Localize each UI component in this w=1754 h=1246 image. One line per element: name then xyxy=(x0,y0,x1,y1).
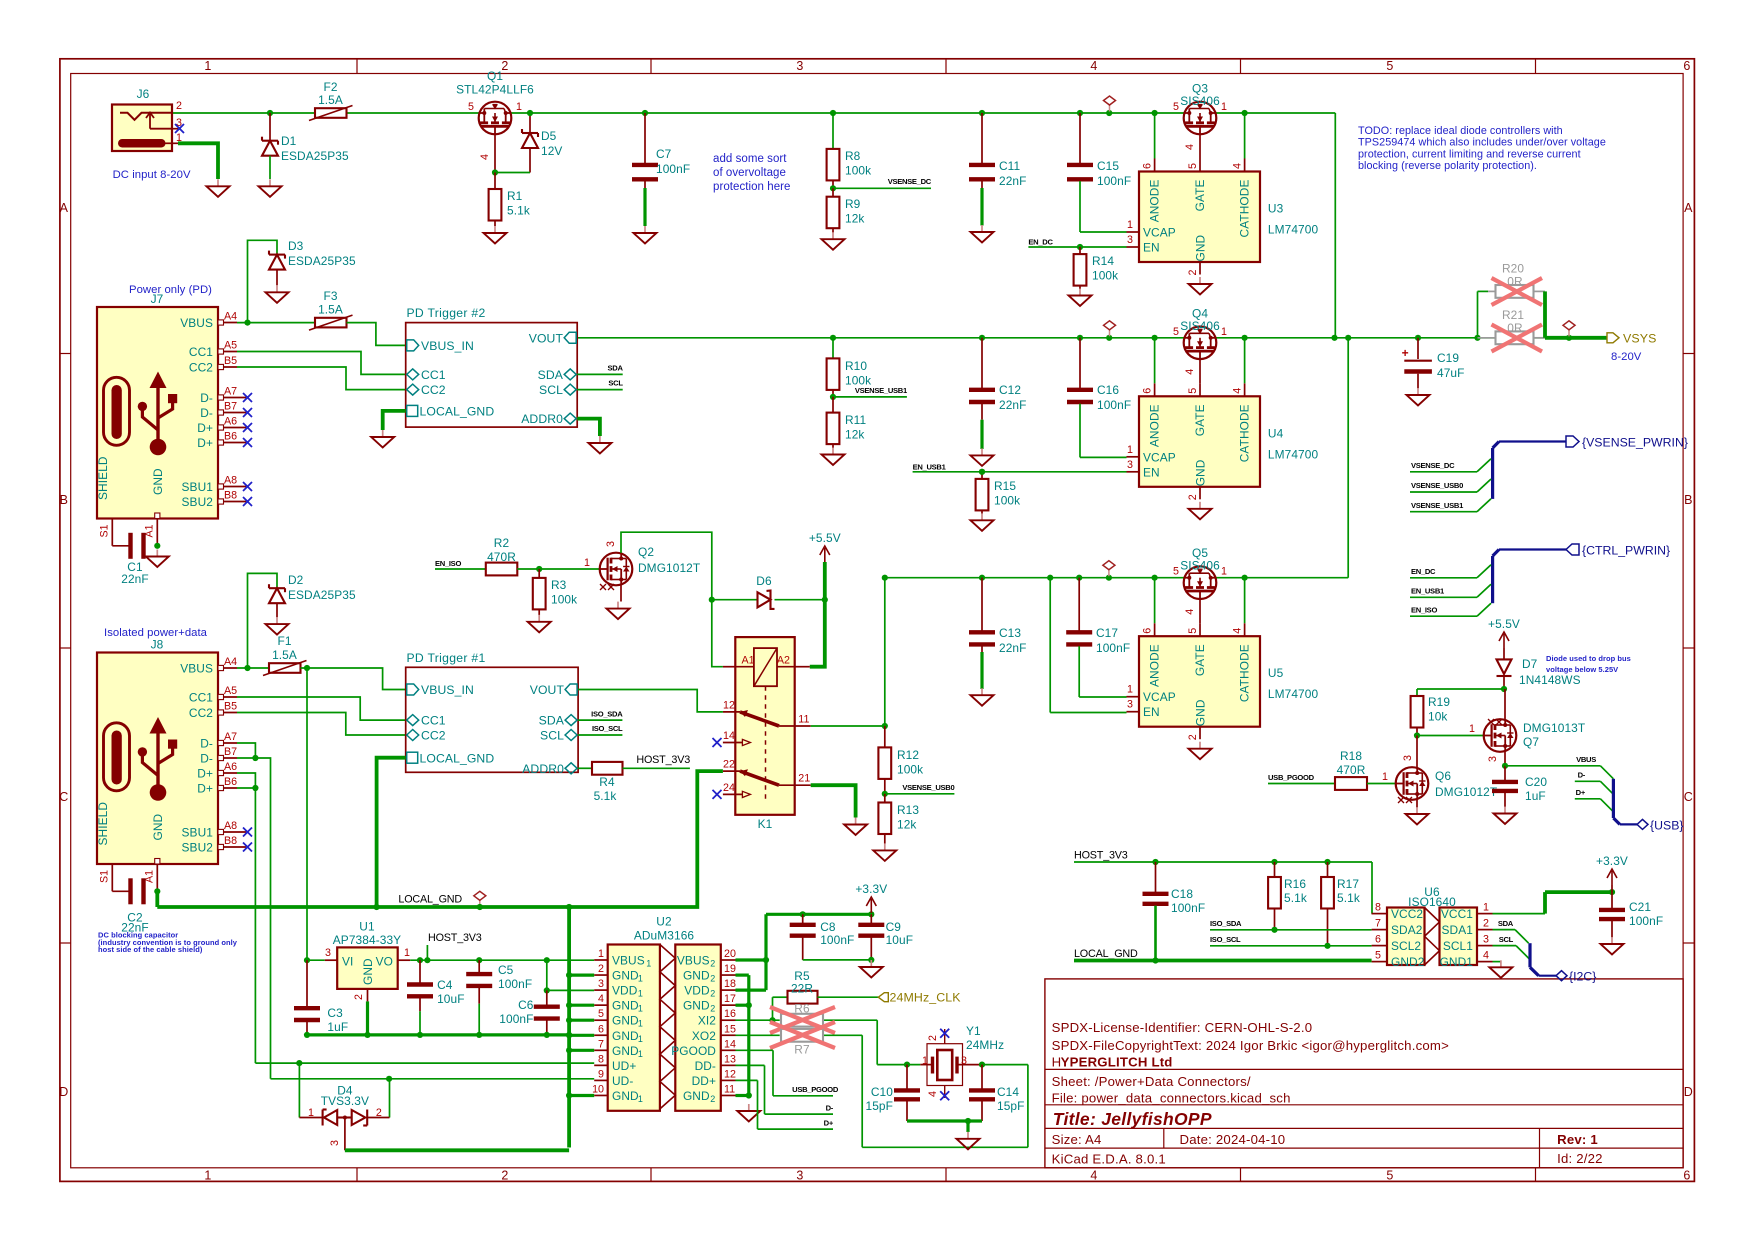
wire Y1 gnd stub xyxy=(966,1121,969,1132)
svg-text:2: 2 xyxy=(710,989,715,999)
svg-text:LOCAL_GND: LOCAL_GND xyxy=(1074,948,1138,960)
svg-text:470R: 470R xyxy=(487,550,516,564)
bus entry VSENSE_USB1 xyxy=(1477,499,1491,512)
svg-text:5: 5 xyxy=(1375,950,1381,962)
junction D4 pin2 xyxy=(386,1076,392,1082)
svg-text:6: 6 xyxy=(1683,59,1690,73)
svg-text:D1: D1 xyxy=(281,134,297,148)
svg-text:D-: D- xyxy=(200,406,213,420)
wire XI2 xyxy=(736,1020,921,1064)
svg-text:LOCAL_GND: LOCAL_GND xyxy=(420,751,495,765)
ground C19 xyxy=(1407,388,1430,406)
junction U4 ANODE xyxy=(1152,335,1158,341)
svg-text:D2: D2 xyxy=(288,573,304,587)
junction GND1 pin2 xyxy=(566,972,572,978)
resistor R10 100k xyxy=(827,338,872,397)
resistor R8 100k xyxy=(827,113,872,188)
net flag diamond LOCAL_GND xyxy=(479,900,481,907)
svg-text:21: 21 xyxy=(798,773,810,785)
svg-text:J6: J6 xyxy=(137,87,150,101)
svg-text:PD Trigger #2: PD Trigger #2 xyxy=(407,306,486,320)
svg-text:UD+: UD+ xyxy=(612,1059,636,1073)
junction R5 bottom xyxy=(769,1017,775,1023)
capacitor C21 100nF xyxy=(1599,892,1663,937)
wire Q7 drain xyxy=(1504,689,1506,719)
wire K1 pin11 xyxy=(811,578,885,726)
svg-text:C16: C16 xyxy=(1097,383,1119,397)
svg-text:DD-: DD- xyxy=(695,1059,716,1073)
connector J8 USB-C xyxy=(96,638,252,892)
resistor R12 100k xyxy=(878,726,923,794)
wire U2 GND1 pin4 xyxy=(569,1004,594,1007)
svg-text:10: 10 xyxy=(592,1083,604,1095)
wire PD1 LOCAL_GND xyxy=(377,758,406,907)
svg-text:R16: R16 xyxy=(1284,877,1306,891)
svg-text:6: 6 xyxy=(1142,163,1154,169)
label HOST_3V3 rail xyxy=(1074,850,1372,914)
svg-text:KiCad E.D.A. 8.0.1: KiCad E.D.A. 8.0.1 xyxy=(1052,1152,1166,1167)
ground U4 GND xyxy=(1189,502,1212,520)
svg-text:15pF: 15pF xyxy=(865,1099,893,1113)
wire U2 GND1 pin6 xyxy=(569,1034,594,1037)
junction R14 top xyxy=(1077,244,1083,250)
wire U1 GND down xyxy=(366,1001,369,1035)
ground J6 xyxy=(207,179,230,197)
wire F1 down to U1 VI xyxy=(306,668,308,960)
wire +5.5V to K1 A2 xyxy=(810,600,825,667)
svg-text:D-: D- xyxy=(200,737,213,751)
svg-text:2: 2 xyxy=(927,1035,939,1041)
svg-text:1: 1 xyxy=(1127,444,1133,456)
capacitor C3 1uF xyxy=(294,960,348,1035)
svg-text:VBUS: VBUS xyxy=(677,954,710,968)
junction LOCAL_GND x569 xyxy=(566,904,572,910)
svg-text:EN: EN xyxy=(1143,465,1160,479)
svg-text:VI: VI xyxy=(342,955,353,969)
ground C13 xyxy=(971,688,994,706)
svg-text:1: 1 xyxy=(1127,684,1133,696)
junction VSYS xyxy=(1566,335,1572,341)
svg-text:C13: C13 xyxy=(999,626,1021,640)
svg-text:4: 4 xyxy=(927,1091,939,1097)
svg-text:Size: A4: Size: A4 xyxy=(1052,1132,1102,1147)
junction row1 D1 xyxy=(267,110,273,116)
diode D2 ESDA25P35 xyxy=(248,573,356,668)
transistor Q7 DMG1013T xyxy=(1484,719,1586,762)
svg-text:6: 6 xyxy=(1683,1169,1690,1183)
svg-text:VCAP: VCAP xyxy=(1143,226,1176,240)
wire R20 output xyxy=(1543,291,1547,337)
resistor R21 0R DNP xyxy=(1478,308,1546,344)
svg-text:A7: A7 xyxy=(224,386,237,398)
svg-text:SDA: SDA xyxy=(608,364,624,373)
capacitor C17 100nF xyxy=(1066,578,1130,697)
bus entry EN_DC xyxy=(1477,565,1491,578)
junction C12 xyxy=(979,335,985,341)
label D+ stub xyxy=(1575,788,1601,799)
wire C8 C9 gnd xyxy=(803,959,872,961)
svg-text:5: 5 xyxy=(1386,1169,1393,1183)
junction U3 ANODE xyxy=(1152,110,1158,116)
svg-text:U4: U4 xyxy=(1268,426,1284,440)
svg-text:100nF: 100nF xyxy=(499,1012,533,1026)
junction Y1 pin1 xyxy=(904,1062,910,1068)
text TODO note xyxy=(1358,125,1606,172)
svg-text:B: B xyxy=(1684,493,1693,507)
label EN_DC xyxy=(1028,238,1126,248)
svg-text:47uF: 47uF xyxy=(1437,366,1465,380)
capacitor C4 10uF xyxy=(407,960,465,1035)
svg-text:VCAP: VCAP xyxy=(1143,690,1176,704)
svg-text:Id: 2/22: Id: 2/22 xyxy=(1557,1151,1603,1166)
label SCL U6 xyxy=(1493,935,1517,946)
capacitor C14 15pF xyxy=(969,1065,1025,1121)
junction row2 x1334 xyxy=(1331,335,1337,341)
wire PD2 ADDR0 to ground xyxy=(577,419,600,436)
svg-text:9: 9 xyxy=(598,1068,604,1080)
svg-text:GND: GND xyxy=(1194,234,1208,261)
ground R14 xyxy=(1069,289,1092,307)
junction D- xyxy=(252,755,258,761)
svg-text:SDA: SDA xyxy=(538,368,564,382)
capacitor C7 100nF xyxy=(632,113,690,226)
junction LOCAL_GND x376 xyxy=(374,904,380,910)
svg-text:HOST_3V3: HOST_3V3 xyxy=(428,932,482,944)
svg-text:4: 4 xyxy=(1184,369,1196,375)
svg-text:VSENSE_DC: VSENSE_DC xyxy=(888,177,932,186)
svg-text:F2: F2 xyxy=(323,80,337,94)
power +5.5V D7 xyxy=(1488,617,1520,648)
bus entry VSENSE_DC xyxy=(1477,459,1491,472)
no-connect Y1 pin4 xyxy=(940,1091,949,1100)
svg-text:100nF: 100nF xyxy=(1097,174,1131,188)
svg-text:Date: 2024-04-10: Date: 2024-04-10 xyxy=(1180,1132,1286,1147)
svg-text:100nF: 100nF xyxy=(1097,398,1131,412)
wire PD2 LOCAL_GND to ground xyxy=(383,411,406,430)
DNP cross R20 xyxy=(1492,278,1543,305)
svg-text:SBU2: SBU2 xyxy=(182,841,214,855)
global label VSYS xyxy=(1607,331,1656,363)
fuse F2 1.5A xyxy=(309,80,353,121)
svg-text:EN: EN xyxy=(1143,705,1160,719)
svg-text:LOCAL_GND: LOCAL_GND xyxy=(420,405,495,419)
hierarchical label I2C xyxy=(1556,970,1596,984)
svg-text:1.5A: 1.5A xyxy=(318,303,343,317)
hierarchical label VSENSE_PWRIN xyxy=(1566,436,1688,450)
svg-text:15pF: 15pF xyxy=(997,1099,1025,1113)
svg-text:24MHz_CLK: 24MHz_CLK xyxy=(890,991,962,1005)
svg-text:Power only (PD): Power only (PD) xyxy=(129,284,212,296)
svg-text:2: 2 xyxy=(710,974,715,984)
wire U3 ANODE xyxy=(1154,113,1156,159)
junction rail C3 xyxy=(304,1032,310,1038)
svg-text:ADDR0: ADDR0 xyxy=(522,762,564,776)
svg-text:GND: GND xyxy=(151,813,165,840)
svg-text:GND: GND xyxy=(361,958,375,985)
svg-text:C20: C20 xyxy=(1525,775,1547,789)
junction R3 top xyxy=(536,566,542,572)
svg-text:D+: D+ xyxy=(197,782,213,796)
wire VSYS xyxy=(1545,336,1607,340)
svg-text:1: 1 xyxy=(1469,723,1475,735)
wire GND1 vertical xyxy=(567,907,571,1148)
svg-text:VCC1: VCC1 xyxy=(1441,907,1473,921)
svg-text:1: 1 xyxy=(1221,101,1227,113)
net flag diamond row1 xyxy=(1109,105,1111,112)
svg-text:Q7: Q7 xyxy=(1523,735,1539,749)
svg-text:SCL: SCL xyxy=(608,379,623,388)
svg-text:18: 18 xyxy=(724,978,736,990)
svg-text:blocking (reverse polarity pro: blocking (reverse polarity protection). xyxy=(1358,160,1537,172)
svg-text:YPERGLITCH Ltd: YPERGLITCH Ltd xyxy=(1061,1055,1173,1070)
svg-text:K1: K1 xyxy=(758,817,773,831)
svg-text:GND: GND xyxy=(612,1089,639,1103)
wire Q7 source xyxy=(1504,752,1506,766)
sheet PD Trigger #1 xyxy=(406,651,578,776)
DNP cross R6 xyxy=(770,1007,835,1033)
wire D7 to R19 xyxy=(1417,689,1504,696)
resistor R18 470R xyxy=(1335,749,1396,790)
svg-text:C9: C9 xyxy=(886,920,902,934)
wire GND rail U1 xyxy=(307,1033,569,1036)
svg-text:5: 5 xyxy=(598,1008,604,1020)
svg-text:SCL: SCL xyxy=(540,729,564,743)
junction VSENSE_USB0 xyxy=(882,791,888,797)
power +5.5V K1 xyxy=(809,531,841,600)
svg-text:DC input 8-20V: DC input 8-20V xyxy=(113,169,191,181)
sheet PD Trigger #2 xyxy=(406,306,578,427)
svg-text:1: 1 xyxy=(638,1094,643,1104)
svg-text:S1: S1 xyxy=(99,870,111,883)
junction ISO_SDA R16 xyxy=(1271,927,1277,933)
svg-text:1: 1 xyxy=(1221,326,1227,338)
svg-text:A7: A7 xyxy=(224,731,237,743)
svg-text:VSENSE_USB1: VSENSE_USB1 xyxy=(1411,501,1464,510)
label ISO_SDA U6 xyxy=(1210,919,1372,930)
svg-text:D-: D- xyxy=(200,391,213,405)
svg-text:VSENSE_USB0: VSENSE_USB0 xyxy=(1411,481,1463,490)
wire VBUS_USB0 row3 xyxy=(885,577,1348,579)
bus CTRL_PWRIN xyxy=(1493,550,1566,604)
resistor R15 100k xyxy=(976,472,1021,514)
resistor R17 5.1k xyxy=(1321,862,1360,946)
label EN_DC stub xyxy=(1410,567,1477,578)
svg-text:VBUS: VBUS xyxy=(1576,755,1596,764)
ground U5 GND xyxy=(1189,742,1212,760)
resistor R19 10k xyxy=(1411,695,1451,736)
svg-text:5: 5 xyxy=(1187,388,1199,394)
svg-text:5: 5 xyxy=(1173,101,1179,113)
svg-text:1: 1 xyxy=(638,989,643,999)
svg-text:C4: C4 xyxy=(437,978,453,992)
svg-text:13: 13 xyxy=(724,1053,736,1065)
junction U5 EN rail xyxy=(1047,575,1053,581)
svg-text:100k: 100k xyxy=(551,593,577,607)
svg-text:GND: GND xyxy=(612,1044,639,1058)
wire D+ down xyxy=(254,788,256,1063)
svg-text:SHIELD: SHIELD xyxy=(96,802,110,846)
svg-text:2: 2 xyxy=(353,994,365,1000)
svg-text:12V: 12V xyxy=(541,144,562,158)
label ISO_SCL xyxy=(578,724,623,735)
svg-text:R2: R2 xyxy=(494,536,510,550)
wire U2 GND1 pin7 xyxy=(569,1049,594,1052)
ground PD2 LOCAL_GND xyxy=(371,430,394,448)
svg-text:D7: D7 xyxy=(1522,657,1538,671)
svg-text:C17: C17 xyxy=(1096,626,1118,640)
junction C13 xyxy=(979,575,985,581)
label VSENSE_USB0 xyxy=(885,783,955,794)
svg-text:A5: A5 xyxy=(224,340,237,352)
svg-text:GND2: GND2 xyxy=(1391,955,1425,969)
svg-text:8: 8 xyxy=(598,1053,604,1065)
svg-text:1: 1 xyxy=(638,1004,643,1014)
wire U5 ANODE xyxy=(1154,578,1156,624)
ground U6 GND1 xyxy=(1489,960,1512,978)
ground D3 xyxy=(266,285,289,303)
svg-text:B: B xyxy=(60,493,69,507)
svg-text:B7: B7 xyxy=(224,401,237,413)
svg-text:3: 3 xyxy=(1483,934,1489,946)
ground U3 GND xyxy=(1189,277,1212,295)
svg-text:R9: R9 xyxy=(845,197,861,211)
svg-text:EN_ISO: EN_ISO xyxy=(435,559,461,568)
junction VBUS1 tie xyxy=(544,957,550,963)
svg-text:+3.3V: +3.3V xyxy=(1596,854,1628,868)
resistor R5 22R xyxy=(773,969,879,1020)
svg-text:ANODE: ANODE xyxy=(1148,404,1162,447)
capacitor C13 22nF xyxy=(969,578,1027,689)
svg-text:100k: 100k xyxy=(845,164,871,178)
svg-text:A: A xyxy=(1684,201,1693,215)
junction R15 top xyxy=(979,469,985,475)
svg-text:C3: C3 xyxy=(327,1006,343,1020)
svg-text:GND: GND xyxy=(151,468,165,495)
wire D4 pin3 to GND1 xyxy=(345,1148,569,1152)
capacitor C19 47uF polarized xyxy=(1402,338,1465,389)
svg-text:SCL: SCL xyxy=(1499,935,1514,944)
svg-text:VSYS: VSYS xyxy=(1623,331,1656,345)
text diode drop note xyxy=(1546,654,1631,674)
svg-text:GND: GND xyxy=(612,1029,639,1043)
svg-text:STL42P4LLF6: STL42P4LLF6 xyxy=(456,83,534,97)
svg-text:4: 4 xyxy=(1090,1169,1097,1183)
ground Y1 xyxy=(957,1132,980,1150)
svg-text:R12: R12 xyxy=(897,748,919,762)
svg-text:CC2: CC2 xyxy=(421,383,446,397)
junction D6 anode xyxy=(709,597,715,603)
svg-text:B5: B5 xyxy=(224,355,237,367)
svg-text:2: 2 xyxy=(710,1004,715,1014)
svg-text:C15: C15 xyxy=(1097,159,1119,173)
svg-text:{CTRL_PWRIN}: {CTRL_PWRIN} xyxy=(1582,544,1670,558)
junction K1 pin11 R12 xyxy=(882,723,888,729)
junction C9 gnd xyxy=(868,957,874,963)
svg-text:SIS406: SIS406 xyxy=(1180,559,1220,573)
svg-text:U1: U1 xyxy=(359,920,375,934)
svg-text:B5: B5 xyxy=(224,701,237,713)
resistor R11 12k xyxy=(827,397,867,448)
svg-text:3: 3 xyxy=(961,1055,967,1067)
wire Q2 source to ground xyxy=(620,585,622,601)
wire PD1 VOUT to K1 pin12 xyxy=(578,690,723,712)
junction R15/EN_USB1 xyxy=(979,469,985,475)
svg-text:LM74700: LM74700 xyxy=(1268,447,1319,461)
svg-text:1: 1 xyxy=(1483,902,1489,914)
resistor R1 5.1k xyxy=(489,173,530,227)
junction GND1 pin7 xyxy=(566,1047,572,1053)
bus entry SDA xyxy=(1515,930,1529,944)
capacitor C2 22nF xyxy=(121,878,149,934)
svg-text:22nF: 22nF xyxy=(999,398,1027,412)
wire U2 GND1 pin5 xyxy=(569,1019,594,1022)
svg-text:SDA2: SDA2 xyxy=(1391,923,1423,937)
wire XO2 xyxy=(736,1035,1028,1147)
label VSENSE_USB0 stub xyxy=(1410,481,1477,492)
power +3.3V C21 xyxy=(1596,854,1628,885)
svg-text:10uF: 10uF xyxy=(886,933,914,947)
svg-text:7: 7 xyxy=(1375,918,1381,930)
wire J8 D+ B6 xyxy=(237,787,255,789)
diode D6 schottky xyxy=(712,574,825,609)
junction U4 CATHODE xyxy=(1242,335,1248,341)
svg-text:Sheet: /Power+Data Connectors/: Sheet: /Power+Data Connectors/ xyxy=(1052,1074,1251,1089)
svg-text:22R: 22R xyxy=(791,982,813,996)
svg-text:D: D xyxy=(59,1085,68,1099)
svg-text:GND: GND xyxy=(1194,459,1208,486)
svg-text:ESDA25P35: ESDA25P35 xyxy=(281,149,349,163)
junction VSENSE_DC xyxy=(830,185,836,191)
bus entry VBUS xyxy=(1600,766,1613,779)
wire C2/A1 to LOCAL_GND rail xyxy=(155,891,159,907)
ground C12 xyxy=(971,448,994,466)
ideal diode controller U4 LM74700 xyxy=(1127,383,1319,500)
transistor Q4 SIS406 xyxy=(1173,306,1227,383)
wire U3 CATHODE xyxy=(1244,113,1246,159)
svg-text:U3: U3 xyxy=(1268,202,1284,216)
diode D3 ESDA25P35 xyxy=(248,239,356,323)
svg-text:SBU1: SBU1 xyxy=(182,826,214,840)
svg-text:VCC2: VCC2 xyxy=(1391,907,1423,921)
svg-text:12k: 12k xyxy=(897,818,916,832)
svg-text:ISO_SDA: ISO_SDA xyxy=(1210,919,1242,928)
wire GND2 verticals xyxy=(736,975,749,1095)
svg-text:DMG1012T: DMG1012T xyxy=(1435,785,1497,799)
wire K1 pin22 to LOCAL_GND xyxy=(157,771,723,907)
svg-text:C5: C5 xyxy=(498,963,514,977)
connector J7 USB-C xyxy=(96,292,252,546)
junction C18 top xyxy=(1152,859,1158,865)
svg-text:SIS406: SIS406 xyxy=(1180,94,1220,108)
svg-text:R8: R8 xyxy=(845,149,861,163)
svg-text:D-: D- xyxy=(826,1104,834,1113)
resistor R7 0R DNP xyxy=(781,1029,823,1057)
wire VDD2 tie xyxy=(736,914,872,990)
ground U2 GND2 xyxy=(737,1104,760,1122)
label USB_PGOOD R18 xyxy=(1268,773,1335,784)
wire J8 D- A7 xyxy=(237,743,255,758)
junction U5 ANODE xyxy=(1152,575,1158,581)
junction VBUS2 xyxy=(763,957,769,963)
svg-text:F3: F3 xyxy=(323,289,337,303)
junction J8 VBUS xyxy=(244,665,250,671)
crystal Y1 24MHz xyxy=(920,1024,1004,1098)
capacitor C6 100nF xyxy=(499,990,560,1035)
net flag diamond row3 xyxy=(1108,570,1110,577)
svg-text:U5: U5 xyxy=(1268,666,1284,680)
svg-text:1: 1 xyxy=(1127,219,1133,231)
svg-text:D5: D5 xyxy=(541,129,557,143)
